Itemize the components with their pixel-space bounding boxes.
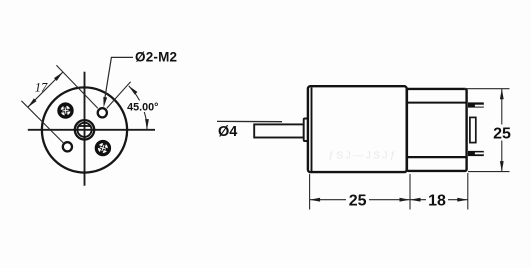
side view shaft [254,124,304,137]
label 25 bottom background [346,192,369,207]
dia 4 leader line [217,120,282,122]
angle arc arrow lower [145,119,149,130]
bottom dim extension line middle [409,174,411,210]
angle arc arrow upper [127,85,137,95]
shaft D-flat chord in boss [79,125,91,127]
hole TR (M2) [98,108,107,117]
gearbox front face plate line [311,88,313,172]
bottom dim extension line left [309,174,311,210]
bottom dim extension line right [467,173,469,210]
motor end cap bump [470,117,476,142]
motor terminal lower [468,151,484,156]
svg-text:17: 17 [35,80,48,94]
gearbox body [308,86,407,172]
dim 17 extension line lower (through BL hole) [21,101,63,143]
label 18 bottom background [426,192,448,207]
svg-text:18: 18 [428,193,446,210]
center boss outer circle [75,120,94,139]
screw BR phillips cross [96,141,109,154]
svg-text:Ø4: Ø4 [218,124,237,140]
label 25 right background [491,125,513,141]
bottom dim line [310,199,468,201]
motor can body [407,89,467,171]
svg-text:Ø2-M2: Ø2-M2 [135,49,177,64]
bottom dim arrow mid-right (25) [400,198,411,202]
screw BR head ring [96,142,109,155]
right dim extension line top [464,88,510,90]
hole BL (M2) [63,142,72,151]
leader line for 2-M2 callout [104,57,133,103]
dim 17 arrow SW [26,98,36,108]
bottom dim arrow right [457,198,468,202]
front view vertical centerline [84,72,86,186]
screw TL head ring [59,104,72,117]
motor can upper crimp line [407,102,467,104]
front view motor face outer circle [42,87,127,172]
45 deg radial extension line [107,82,131,109]
right dim arrow down [500,161,504,172]
center boss inner circle [77,123,91,137]
svg-text:25: 25 [349,193,367,210]
dim 17 extension line upper (through TR hole) [56,65,97,108]
motor terminal upper [468,102,484,107]
front view horizontal centerline [28,129,155,131]
screw TL phillips cross [60,105,72,117]
45 deg angle arc [129,86,147,130]
right dim arrow up [500,89,504,100]
dim 17 arrow NE [54,71,64,81]
right dim line 25 vertical [501,89,503,172]
bottom dim arrow left [310,198,321,202]
svg-text:45.00°: 45.00° [127,101,158,113]
motor can lower crimp line [407,156,467,158]
side view shaft collar bushing [304,119,309,142]
dim 17 dimension line [28,72,63,107]
leader arrow at TR hole [102,97,107,108]
bottom dim arrow mid-left (18) [410,198,421,202]
svg-text:25: 25 [493,126,511,143]
label 45.00 deg background [126,101,160,113]
svg-text:ƒSJ—JSJƒ: ƒSJ—JSJƒ [328,150,398,162]
right dim extension line bottom [468,171,510,173]
